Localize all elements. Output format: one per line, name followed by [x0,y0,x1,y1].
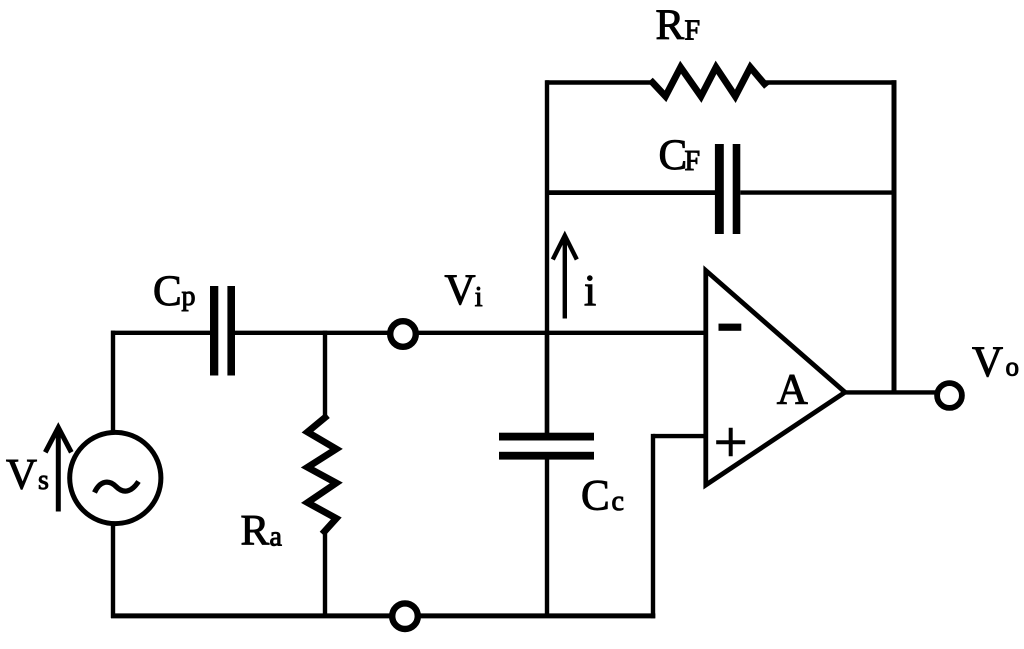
wire Cc top [545,333,549,433]
svg-text:p: p [182,281,196,312]
wire output (apex to node Vo) [843,390,937,394]
capacitor Cc bottom plate [499,452,594,460]
svg-text:F: F [685,146,701,177]
svg-text:F: F [685,16,701,47]
wire left vertical top (Cp branch to source) [111,331,115,433]
arrow current i [553,236,577,319]
svg-text:i: i [584,266,596,315]
resistor R1 RF zigzag [653,67,765,96]
svg-text:A: A [777,367,808,414]
wire Ra top [323,331,327,418]
svg-text:i: i [475,282,483,313]
svg-text:V: V [972,339,1003,386]
wire top feedback left segment [546,80,653,84]
wire left vertical bottom (source to ground rail) [111,523,115,618]
capacitor Cp right plate [227,286,235,376]
capacitor CF right plate [733,144,741,234]
wire top feedback right segment [764,80,896,84]
wire left feedback vertical [545,80,549,433]
op-amp U1 triangle [706,271,845,486]
node Vi open circle [390,321,416,347]
svg-text:a: a [270,521,283,552]
svg-text:V: V [445,267,476,314]
arrow Vs polarity [45,428,71,512]
svg-text:V: V [6,452,37,499]
node ground open circle [392,603,418,629]
wire CF right segment [740,190,896,194]
op-amp plus symbol [716,428,745,456]
capacitor Cp left plate [210,286,218,376]
svg-text:o: o [1006,352,1020,382]
wire ground rail left segment [111,613,392,618]
wire input left horizontal (Vs to Cp) [111,331,210,335]
wire op-amp plus input vertical to ground rail [651,434,655,618]
capacitor Cc top plate [499,433,594,441]
svg-text:R: R [241,508,270,555]
svg-text:c: c [612,486,624,517]
wire op-amp plus input horizontal [653,434,706,438]
wire CF left segment [545,190,715,195]
capacitor CF left plate [715,144,724,234]
wire ground rail right segment [419,613,656,618]
wire right feedback vertical [892,80,897,392]
svg-text:C: C [659,132,688,179]
wire node Vi to op-amp minus input [416,331,706,335]
svg-text:s: s [38,465,49,496]
op-amp minus symbol [719,324,742,331]
svg-text:R: R [656,2,685,49]
svg-text:C: C [153,268,182,315]
resistor Ra zigzag [308,418,337,532]
node Vo open circle [937,383,962,408]
svg-text:C: C [581,472,610,519]
wire Cc bottom [545,459,549,618]
wire Cp to node Vi [235,331,390,335]
voltage source Vs circle [70,432,161,523]
wire Ra bottom [323,531,327,618]
voltage source sine tilde [95,482,139,493]
